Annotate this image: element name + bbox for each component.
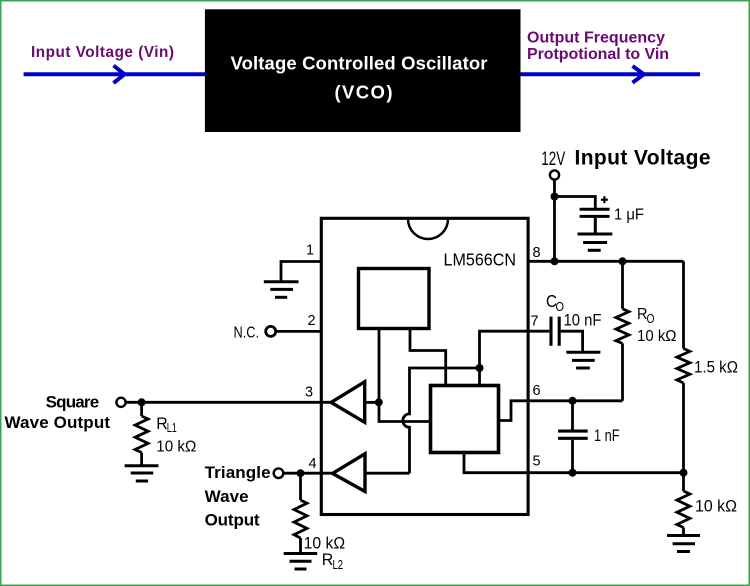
- capacitor C1 1uF (polarized): [580, 209, 610, 233]
- svg-text:1 μF: 1 μF: [614, 207, 644, 224]
- wire: pin 5 rail: [529, 471, 684, 474]
- wire: B2 bottom to pin 5: [464, 453, 529, 473]
- wire: right rail from pin8: [682, 261, 685, 348]
- ground (CO): [566, 352, 600, 368]
- svg-text:1.5 kΩ: 1.5 kΩ: [694, 358, 738, 376]
- wire: pin6 node to C2: [571, 401, 574, 430]
- junction dot pin8/RO: [619, 257, 627, 265]
- IC U1 LM566CN outline: [321, 218, 528, 514]
- svg-text:5: 5: [533, 454, 541, 470]
- buffer amp A1 (square wave, pin 3): [331, 382, 379, 423]
- svg-text:Wave: Wave: [205, 487, 249, 506]
- svg-text:Wave Output: Wave Output: [5, 413, 111, 432]
- svg-text:Input Voltage: Input Voltage: [575, 147, 711, 170]
- internal block B1 (current sources): [359, 269, 430, 329]
- junction dot square output: [138, 398, 146, 406]
- resistor R1 1.5k: [677, 349, 690, 384]
- svg-text:8: 8: [533, 245, 541, 261]
- label: Triangle Wave Output: [205, 463, 271, 530]
- wire: 12V down to pin 8: [553, 180, 556, 262]
- junction dot pin8/12V: [551, 257, 559, 265]
- svg-text:3: 3: [305, 385, 313, 401]
- label: RL1: [156, 414, 177, 435]
- wire: R2 to ground: [682, 528, 685, 535]
- ground (pin 1): [264, 282, 299, 298]
- wire: B1 right lead to B2 top: [410, 329, 446, 386]
- svg-text:2: 2: [308, 313, 316, 329]
- svg-text:4: 4: [309, 456, 317, 472]
- terminal: triangle wave output circle: [274, 468, 284, 478]
- resistor R2 10k: [677, 491, 690, 528]
- svg-text:10 nF: 10 nF: [564, 312, 602, 330]
- wire: B2 right to pin 6: [499, 401, 529, 421]
- buffer amp A2 (triangle wave, pin 4): [333, 454, 410, 492]
- resistor RO: [616, 261, 629, 401]
- svg-text:O: O: [647, 312, 655, 326]
- ground (RL2): [284, 554, 318, 570]
- block: VCO black box: [205, 9, 521, 132]
- svg-text:Output Frequency: Output Frequency: [527, 29, 665, 46]
- junction dot pin5/C2: [569, 469, 577, 477]
- svg-text:7: 7: [531, 314, 539, 330]
- wire: 12V node to C1: [555, 197, 596, 209]
- svg-text:1 nF: 1 nF: [594, 427, 620, 445]
- svg-text:10 kΩ: 10 kΩ: [637, 328, 677, 345]
- svg-text:N.C.: N.C.: [234, 325, 260, 342]
- wire: pin 4 to triangle terminal: [284, 472, 333, 475]
- label: RO: [637, 306, 655, 326]
- svg-text:Protpotional to Vin: Protpotional to Vin: [527, 46, 669, 63]
- junction dot pin7 net: [476, 364, 484, 372]
- svg-text:6: 6: [533, 383, 541, 399]
- wire: pin 6 rail to RO bottom: [529, 399, 623, 402]
- junction dot pin5/rail: [680, 469, 688, 477]
- wire: pin 1 to ground: [281, 262, 320, 282]
- ground (R2): [667, 536, 700, 552]
- junction dot triangle output: [297, 469, 305, 477]
- label: Square Wave Output: [5, 392, 111, 432]
- svg-text:LM566CN: LM566CN: [444, 249, 517, 269]
- svg-text:Triangle: Triangle: [205, 463, 271, 482]
- junction dot pin6/C2: [569, 397, 577, 405]
- wire: pin 2 stub: [277, 330, 321, 333]
- wire: junction to R2: [682, 473, 685, 491]
- terminal: N.C. open circle: [266, 326, 276, 336]
- svg-text:12V: 12V: [541, 149, 565, 170]
- svg-text:Voltage Controlled Oscillator: Voltage Controlled Oscillator: [231, 53, 488, 74]
- terminal: square wave output circle: [116, 398, 125, 407]
- junction dot 12V/C1: [551, 193, 559, 201]
- svg-text:Square: Square: [46, 392, 100, 411]
- capacitor C2 1nF: [558, 431, 588, 438]
- resistor RL1: [135, 402, 148, 464]
- svg-text:Input Voltage (Vin): Input Voltage (Vin): [31, 44, 174, 61]
- svg-text:L1: L1: [167, 421, 177, 435]
- junction dot on pin3 net: [375, 398, 383, 406]
- wire: pin7 net to A2 input with hop over: [403, 368, 480, 473]
- svg-text:10 kΩ: 10 kΩ: [695, 497, 737, 516]
- plus sign C1: [601, 196, 608, 203]
- wire: R1 to pin5 rail: [682, 383, 685, 473]
- terminal: 12V supply circle: [550, 170, 559, 179]
- svg-text:(VCO): (VCO): [335, 82, 393, 103]
- wire: B1 left lead to B2 left (crosses pin3 net): [379, 329, 431, 422]
- svg-text:Output: Output: [205, 511, 260, 530]
- wire: pin 7 stub to CO: [529, 330, 550, 333]
- svg-text:L2: L2: [333, 558, 344, 572]
- svg-text:10 kΩ: 10 kΩ: [156, 439, 196, 456]
- resistor RL2: [294, 473, 307, 552]
- wire: pin 7 to B2 top: [480, 331, 529, 385]
- wire: input arrow (blue): [24, 66, 205, 84]
- wire: C2 to pin5 rail: [571, 440, 574, 473]
- ground (RL1): [125, 466, 159, 481]
- label: RL2: [322, 550, 343, 572]
- label: Output Frequency Protpotional to Vin: [527, 29, 669, 63]
- wire: pin 3 to square-wave terminal: [126, 401, 331, 404]
- ground (C1): [578, 234, 613, 250]
- wire: pin 8 rail: [529, 260, 684, 263]
- label: CO: [546, 291, 564, 314]
- internal block B2 (schmitt trigger): [431, 386, 499, 453]
- capacitor CO 10nF: [551, 317, 559, 346]
- wire: output arrow (blue): [521, 66, 701, 83]
- svg-text:1: 1: [306, 243, 314, 259]
- wire: CO to ground: [561, 331, 583, 351]
